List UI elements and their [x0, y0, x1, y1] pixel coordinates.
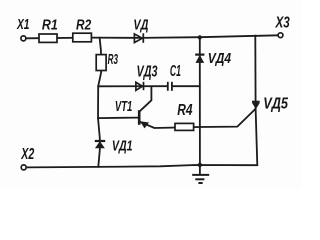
svg-text:VД5: VД5 [263, 96, 289, 113]
svg-text:X2: X2 [21, 146, 35, 163]
svg-text:VД1: VД1 [112, 137, 133, 154]
svg-text:C1: C1 [170, 63, 181, 80]
svg-text:R4: R4 [177, 102, 192, 119]
svg-text:R2: R2 [76, 16, 92, 33]
svg-text:VД: VД [133, 16, 148, 33]
svg-text:VД4: VД4 [208, 50, 232, 67]
svg-text:VT1: VT1 [115, 98, 132, 115]
svg-text:X1: X1 [16, 16, 29, 33]
svg-text:R1: R1 [42, 17, 58, 34]
svg-text:R3: R3 [108, 51, 119, 68]
svg-text:X3: X3 [275, 15, 290, 32]
svg-text:VД3: VД3 [137, 64, 158, 81]
